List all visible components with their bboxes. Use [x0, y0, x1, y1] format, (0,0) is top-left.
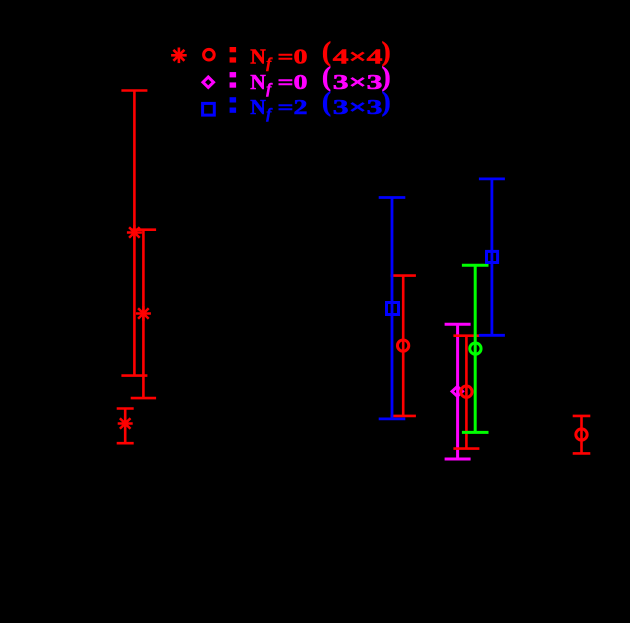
red error bar R4 (Nf=0 4x4, middle group) [391, 276, 416, 416]
red error bar R3 (Nf=0 4x4, small low) [117, 409, 134, 444]
circle marker on R4 [397, 340, 408, 351]
square marker on B2 [487, 251, 498, 262]
square marker on B1 [387, 303, 399, 315]
svg-text:=2: =2 [278, 95, 308, 119]
green error bar G1 [462, 265, 489, 432]
magenta error bar M1 (Nf=0 3x3) [445, 324, 471, 459]
svg-text:=0: =0 [278, 45, 308, 69]
legend row 2 text: Nf=0 (3x3) [230, 62, 391, 98]
svg-text:N: N [250, 70, 266, 94]
svg-text:(: ( [322, 87, 331, 117]
blue error bar B2 (Nf=2 3x3, right group) [479, 179, 505, 335]
blue error bar B1 (Nf=2 3x3, middle group) [379, 198, 406, 419]
asterisk marker on R3 [118, 416, 133, 431]
svg-text:=0: =0 [278, 70, 308, 94]
red error bar R5 (Nf=0 4x4, right group) [453, 336, 479, 449]
diamond marker on M1 [452, 387, 463, 397]
asterisk marker on R1 [127, 225, 142, 240]
circle marker on R5 [461, 386, 472, 397]
circle marker on G1 [470, 343, 481, 354]
svg-text:4×4: 4×4 [333, 45, 383, 69]
svg-text:3×3: 3×3 [333, 70, 383, 94]
legend row 3 text: Nf=2 (3x3) [230, 87, 391, 123]
svg-text:N: N [250, 95, 266, 119]
svg-text:3×3: 3×3 [333, 95, 383, 119]
legend row 1 text: Nf=0 (4x4) [230, 37, 391, 73]
legend diamond marker (magenta) [203, 77, 214, 87]
legend square marker (blue) [203, 103, 215, 115]
red error bar R6 (Nf=0 4x4, far right small) [573, 416, 591, 454]
svg-text:N: N [250, 45, 266, 69]
circle marker on R6 [576, 429, 587, 440]
asterisk marker on R2 [136, 306, 151, 321]
svg-text:): ) [382, 87, 391, 117]
red error bar R1 (Nf=0 4x4, leftmost tall) [121, 91, 147, 376]
legend asterisk marker (red) [171, 48, 187, 64]
legend circle marker (red) [204, 49, 215, 60]
red error bar R2 (Nf=0 4x4, second tall) [131, 230, 156, 398]
